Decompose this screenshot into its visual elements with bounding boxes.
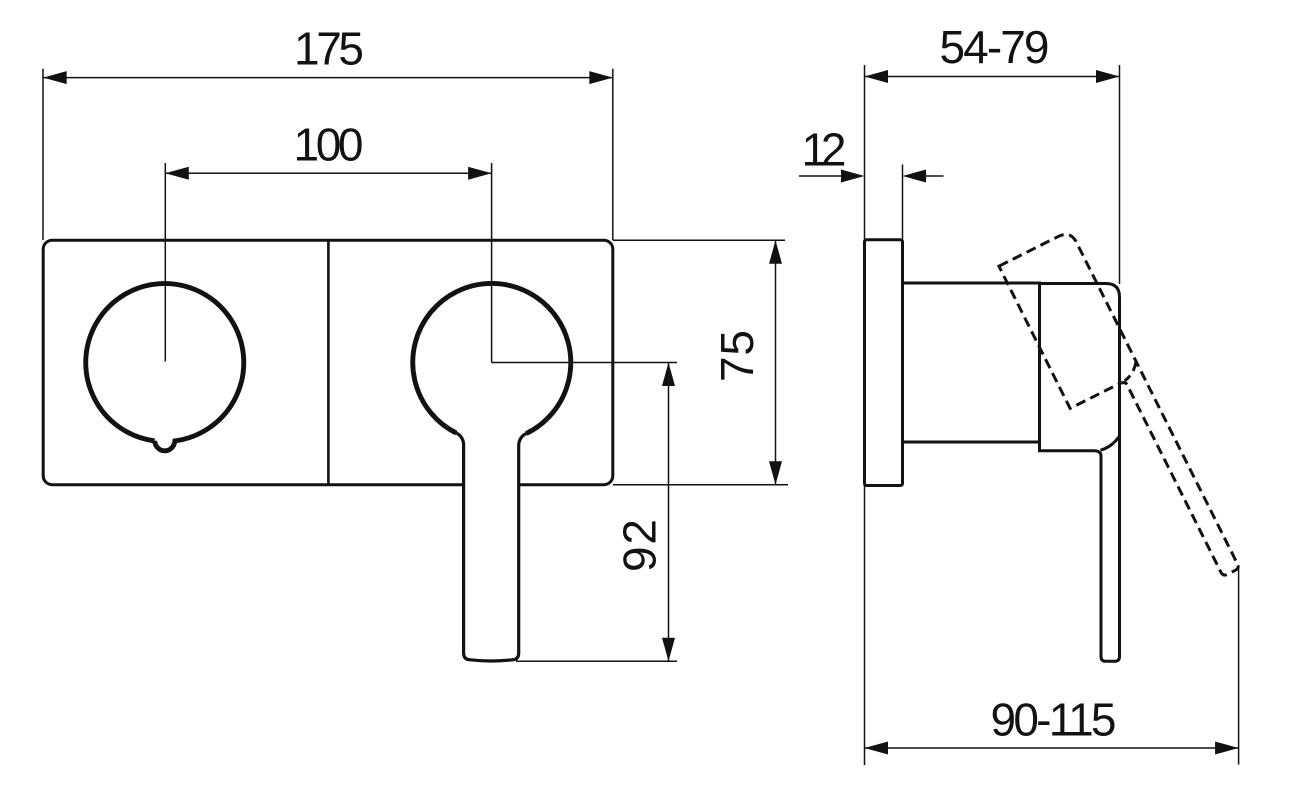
svg-text:100: 100 [294, 118, 364, 170]
svg-text:12: 12 [802, 124, 847, 176]
svg-text:75: 75 [711, 330, 763, 382]
svg-text:90-115: 90-115 [991, 693, 1117, 745]
svg-text:175: 175 [294, 22, 364, 74]
svg-text:54-79: 54-79 [940, 21, 1050, 73]
svg-text:92: 92 [614, 519, 666, 572]
